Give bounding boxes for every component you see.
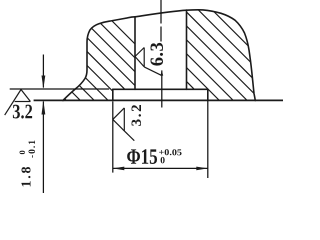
dimension text 1.8 0/-0.1 (rotated) — [17, 140, 38, 188]
svg-text:6.3: 6.3 — [148, 42, 168, 66]
arrowhead pointing up to bottom face line — [42, 101, 46, 115]
part outline: left outer profile — [63, 17, 135, 101]
dimension line for 1.8 depth (lower segment) — [42, 102, 44, 194]
svg-text:0: 0 — [160, 156, 165, 166]
bottom face / seating surface line — [34, 99, 283, 101]
svg-text:3.2: 3.2 — [129, 104, 145, 126]
recess (counterbore) floor line — [113, 88, 208, 90]
arrowhead pointing down to floor extension line — [42, 76, 46, 89]
extension line left for diameter 15 — [112, 102, 114, 173]
top edge across bore opening — [135, 10, 187, 17]
roughness value 6.3 (rotated) — [148, 42, 168, 66]
surface roughness symbol 6.3 on bore wall (rotated mark) — [135, 48, 161, 76]
bore right wall — [186, 10, 188, 89]
recess right wall — [207, 89, 209, 100]
section hatching, right half of part — [0, 0, 286, 195]
svg-text:-0.1: -0.1 — [28, 140, 38, 158]
svg-text:0: 0 — [17, 150, 27, 154]
extension line at recess floor level — [10, 88, 110, 90]
svg-text:1.8: 1.8 — [20, 167, 35, 188]
bore left wall — [134, 17, 136, 90]
recess left wall — [112, 89, 114, 100]
dimension line for diameter 15 — [113, 167, 208, 169]
dimension line for 1.8 depth (upper segment) — [42, 55, 44, 88]
small arrowhead on center line below 6.3 symbol — [160, 70, 163, 75]
vertical center line — [160, 0, 163, 108]
surface roughness symbol 3.2 on recess diameter (rotated mark on extension line) — [113, 108, 135, 141]
roughness value 3.2 (rotated, recess) — [129, 104, 145, 126]
part outline: right outer profile (dome) — [187, 10, 256, 101]
extension line right for diameter 15 — [207, 101, 209, 179]
svg-text:3.2: 3.2 — [12, 101, 33, 123]
surface roughness symbol 3.2 on recess floor (inverted triangle mark) — [5, 90, 31, 116]
arrowhead pointing right — [196, 167, 208, 171]
svg-text:Φ15: Φ15 — [126, 144, 157, 169]
arrowhead pointing left — [113, 167, 125, 171]
